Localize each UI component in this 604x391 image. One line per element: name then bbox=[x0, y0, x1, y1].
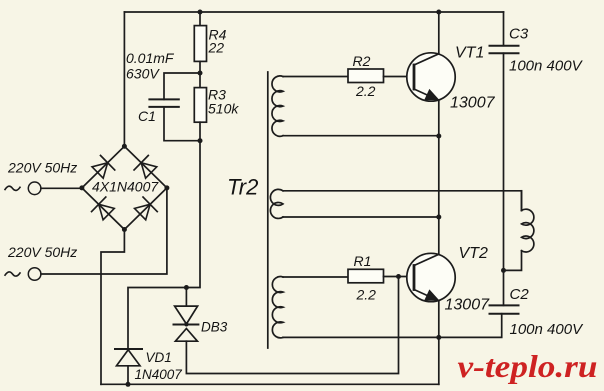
diode VD1 bbox=[115, 348, 142, 350]
wire VT2 emitter down to bottom junction and rail bbox=[438, 301, 440, 385]
wire VT1 collector to rail bbox=[438, 12, 440, 54]
svg-text:C2: C2 bbox=[510, 286, 530, 303]
svg-text:2.2: 2.2 bbox=[356, 287, 377, 303]
capacitor C3 bbox=[490, 46, 519, 54]
svg-text:4X1N4007: 4X1N4007 bbox=[92, 179, 159, 195]
diac DB3 bbox=[175, 306, 198, 324]
tilde 1 bbox=[5, 186, 20, 190]
wire VD1 bottom bbox=[127, 366, 129, 384]
svg-text:VT1: VT1 bbox=[455, 45, 484, 62]
svg-text:13007: 13007 bbox=[445, 297, 491, 314]
wire W3 bottom to emitter junction and C2 bbox=[283, 314, 502, 338]
svg-text:DB3: DB3 bbox=[201, 320, 228, 335]
wire R3 bottom bbox=[128, 122, 200, 349]
transistor VT1 bbox=[407, 53, 455, 101]
wire R4-R3 bbox=[199, 61, 201, 87]
svg-text:C3: C3 bbox=[509, 26, 529, 43]
wire W3 top to R1 bbox=[283, 276, 348, 278]
resistor R1 bbox=[348, 269, 384, 283]
wire C1 bottom link bbox=[164, 107, 200, 141]
capacitor C2 bbox=[490, 305, 519, 313]
svg-text:13007: 13007 bbox=[450, 95, 496, 112]
bridge diamond wires bbox=[82, 146, 167, 229]
AC terminal 2 bbox=[28, 268, 41, 281]
wire W1 bottom to midpoint bbox=[283, 135, 439, 137]
wire C1 top link bbox=[164, 73, 200, 99]
svg-text:Tr2: Tr2 bbox=[227, 175, 258, 200]
wire W2 top to output winding bbox=[283, 191, 522, 211]
svg-text:R2: R2 bbox=[353, 53, 371, 69]
bridge diodes 4X1N4007 bbox=[90, 155, 159, 222]
AC terminal 1 bbox=[28, 182, 41, 195]
svg-text:VD1: VD1 bbox=[146, 350, 172, 365]
wire W1 top to R2 bbox=[283, 76, 348, 78]
wire top rail bbox=[124, 11, 503, 13]
transformer Tr2 core bbox=[267, 72, 269, 348]
wire terminal2 to bridge right vertex bbox=[41, 188, 167, 274]
resistor R3 bbox=[194, 88, 206, 123]
tilde 2 bbox=[5, 272, 20, 276]
wire R2 to VT1 base bbox=[384, 76, 413, 78]
svg-text:1N4007: 1N4007 bbox=[135, 367, 183, 382]
wire C3 branch riser bbox=[503, 12, 505, 46]
output winding riser bbox=[521, 191, 523, 211]
svg-text:630V: 630V bbox=[126, 66, 160, 82]
bridge diode top-right bbox=[133, 155, 158, 181]
capacitor C1 bbox=[149, 99, 178, 107]
wire terminal1 to bridge bbox=[41, 187, 82, 189]
wire DB3 top bbox=[185, 288, 187, 307]
svg-text:510k: 510k bbox=[208, 101, 239, 117]
bridge diode top-left bbox=[90, 155, 115, 181]
bridge diode bottom-right bbox=[132, 196, 157, 222]
svg-text:220V 50Hz: 220V 50Hz bbox=[7, 244, 77, 260]
resistor R2 bbox=[348, 69, 384, 83]
wire VT1 emitter to VT2 collector (midpoint) bbox=[438, 100, 440, 254]
Tr2 winding W2 middle bbox=[270, 189, 283, 218]
svg-text:VT2: VT2 bbox=[459, 245, 488, 262]
svg-text:220V 50Hz: 220V 50Hz bbox=[7, 160, 77, 176]
wire C3 bottom to divider node bbox=[503, 53, 505, 305]
output winding L bbox=[522, 209, 534, 252]
svg-text:C1: C1 bbox=[138, 108, 156, 124]
Tr2 winding W1 top bbox=[272, 76, 283, 136]
svg-text:100n 400V: 100n 400V bbox=[510, 321, 585, 338]
wire bridge top riser bbox=[123, 12, 125, 146]
Tr2 winding W3 bottom bbox=[272, 277, 283, 338]
wire W2 bottom to midpoint bbox=[283, 216, 439, 218]
wire output winding bottom to divider node bbox=[504, 251, 522, 271]
svg-text:0.01mF: 0.01mF bbox=[126, 50, 175, 66]
node dots bbox=[79, 10, 506, 387]
wire bottom rail bbox=[101, 383, 439, 385]
wire R4 top bbox=[199, 12, 201, 26]
svg-text:R1: R1 bbox=[354, 253, 372, 269]
svg-text:100n 400V: 100n 400V bbox=[509, 58, 584, 75]
bridge negative wire to bottom rail bbox=[101, 230, 124, 385]
svg-text:2.2: 2.2 bbox=[355, 83, 376, 99]
svg-text:v-teplo.ru: v-teplo.ru bbox=[458, 348, 598, 384]
resistor R4 bbox=[194, 26, 206, 62]
svg-text:22: 22 bbox=[208, 40, 225, 56]
transistor VT2 bbox=[407, 253, 455, 301]
bridge diode bottom-left bbox=[91, 196, 116, 222]
wire R1 to VT2 base bbox=[384, 276, 413, 278]
wire DB3 to VT2 base bbox=[186, 277, 398, 374]
